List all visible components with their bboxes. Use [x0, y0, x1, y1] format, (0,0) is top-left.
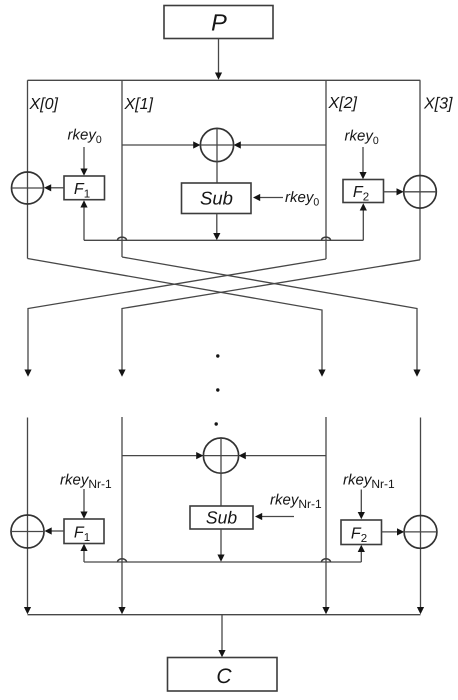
svg-text:X[0]: X[0]	[29, 96, 59, 113]
svg-text:P: P	[211, 10, 227, 36]
wire F1 to left xor	[50, 187, 64, 189]
wire F2 to right xor round2	[382, 531, 399, 533]
wire F2 to right xor	[384, 191, 398, 193]
xor gate middle round1	[200, 128, 233, 161]
perm wire X0 to position3	[28, 259, 323, 372]
svg-text:C: C	[216, 665, 232, 688]
C box	[168, 658, 278, 692]
F2 box round2	[341, 520, 382, 545]
collector arrowhead branch3	[322, 607, 329, 614]
xor gate left round2	[11, 515, 44, 548]
wire Sub output down round2	[220, 529, 222, 556]
wire collector to C	[221, 615, 223, 652]
wire hop at branch2 round2	[118, 559, 127, 562]
perm wire X3 to position2	[122, 260, 420, 371]
F1 box round2	[64, 519, 104, 544]
wire rkeyNr-1 to F2 round2	[360, 490, 362, 514]
Sub box round1	[182, 183, 252, 214]
wire branch2 vertical round2	[121, 417, 123, 609]
svg-text:X[2]: X[2]	[328, 95, 358, 112]
perm wire X1 to position4	[122, 257, 417, 371]
F1 box round1	[64, 176, 105, 200]
wire hop at branch3 round2	[322, 559, 331, 562]
perm wire X2 to position1	[28, 259, 326, 371]
wire branch4 vertical round2	[420, 418, 422, 610]
wire branch X0 vertical	[27, 80, 29, 258]
wire hop at X1 round1	[118, 237, 127, 240]
F2 box round1	[343, 180, 384, 203]
svg-text:Sub: Sub	[200, 188, 233, 209]
wire branch3 vertical round2	[325, 417, 327, 609]
xor gate middle round2	[203, 438, 238, 473]
feedback line round2	[84, 561, 361, 563]
xor gate right round2	[404, 516, 437, 549]
wire branch X1 vertical	[121, 80, 123, 257]
feedback line round1	[84, 239, 363, 241]
P box	[164, 6, 273, 39]
wire branch X2 vertical	[325, 80, 327, 259]
wire branch3 to middle xor round2	[246, 455, 326, 457]
collector arrowhead branch4	[417, 607, 424, 614]
xor gate left round1	[12, 172, 44, 204]
wire feedback to F1 bottom	[83, 206, 85, 240]
wire rkeyNr-1 to F1 round2	[83, 489, 85, 513]
top bus line	[28, 79, 421, 81]
wire rkey0 to F2	[362, 147, 364, 174]
svg-text:X[3]: X[3]	[423, 96, 453, 113]
wire middle xor to Sub round2	[220, 473, 222, 506]
collector arrowhead branch1	[24, 607, 31, 614]
Sub box round2	[190, 506, 253, 529]
wire branch X3 vertical	[419, 80, 421, 259]
wire hop at X2 round1	[322, 237, 331, 240]
collector arrowhead branch2	[118, 607, 125, 614]
wire rkey0 to F1	[83, 147, 85, 170]
svg-text:Sub: Sub	[206, 508, 237, 528]
wire feedback to F2 bottom round2	[360, 551, 362, 563]
wire branch2 to middle xor round2	[122, 455, 196, 457]
wire feedback to F2 bottom	[362, 209, 364, 240]
wire branch1 vertical round2	[27, 418, 29, 610]
wire middle xor to Sub	[216, 162, 218, 183]
xor gate right round1	[404, 176, 437, 209]
wire rkeyNr-1 to Sub round2	[261, 516, 294, 518]
wire X2 branch to middle xor	[241, 144, 326, 146]
svg-text:X[1]: X[1]	[124, 96, 154, 113]
wire X1 branch to middle xor	[122, 144, 193, 146]
wire P to top bus	[218, 39, 220, 75]
collector bus line	[28, 614, 421, 616]
ellipsis dots	[216, 354, 219, 357]
wire rkey0 to Sub	[259, 197, 283, 199]
wire feedback to F1 bottom round2	[83, 550, 85, 563]
wire F1 to left xor round2	[51, 530, 65, 532]
wire Sub output down	[216, 214, 218, 235]
